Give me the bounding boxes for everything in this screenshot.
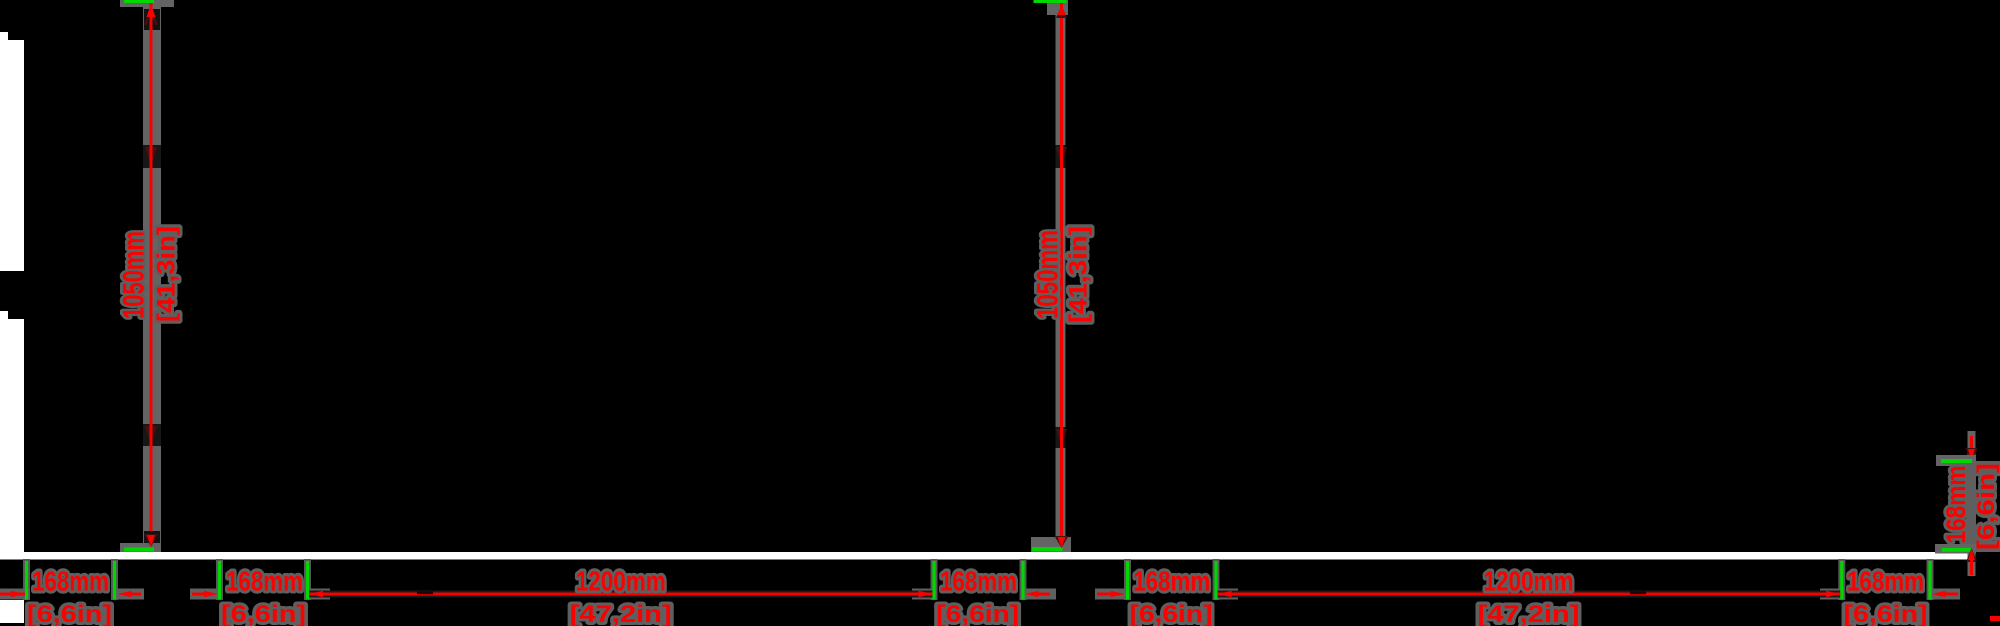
down arrowhead (1968, 449, 1975, 462)
dark arrow upper notch (145, 147, 157, 166)
right arrowhead segment 1 (919, 591, 933, 597)
svg-text:168mm: 168mm (1133, 566, 1210, 597)
dimension line segment from left edge (0, 593, 25, 596)
stray red dash bottom-right (1990, 616, 2000, 621)
top tick halo (120, 0, 174, 7)
dark patch around top arrowhead (144, 9, 160, 30)
halo band bottom (1968, 553, 1976, 576)
arrow halos (0, 589, 30, 600)
svg-text:[6,6in]: [6,6in] (1130, 601, 1213, 626)
svg-text:[6,6in]: [6,6in] (936, 601, 1019, 626)
stub and arrowhead right into tick 7 (1097, 593, 1111, 596)
svg-text:168mm: 168mm (1847, 566, 1924, 597)
bottom tick halo (1031, 537, 1071, 552)
top arrowhead inner dark (147, 9, 155, 25)
svg-text:[6,6in]: [6,6in] (1844, 601, 1928, 626)
svg-text:[6,6in]: [6,6in] (27, 601, 112, 626)
svg-text:168mm: 168mm (32, 566, 109, 597)
svg-text:[47,2in]: [47,2in] (570, 601, 672, 626)
red stub top (1970, 436, 1973, 450)
dark notch lower (1056, 427, 1066, 448)
bottom arrowhead (147, 535, 155, 547)
up arrowhead (1968, 549, 1975, 561)
dark patch around bottom arrowhead (144, 531, 160, 543)
bottom tick halo (1935, 544, 1976, 554)
arrowhead right into tick 1 (11, 591, 25, 597)
dark arrow upper notch (1056, 147, 1067, 166)
dimension line 1200mm segment 1 (309, 593, 933, 596)
svg-text:1050mm: 1050mm (1032, 230, 1065, 319)
white product fragment lower column (0, 319, 24, 552)
dark notch upper (143, 145, 161, 168)
svg-text:1200mm: 1200mm (576, 566, 666, 597)
dark notch lower (143, 424, 161, 446)
svg-text:[6,6in]: [6,6in] (1973, 463, 2000, 550)
svg-text:[41,3in]: [41,3in] (153, 226, 181, 322)
faint line halos under long lines (309, 591, 933, 598)
white product fragment upper column (0, 40, 24, 271)
svg-text:[41,3in]: [41,3in] (1065, 226, 1093, 323)
kink mark segment 2 (1630, 591, 1646, 594)
bottom arrowhead (1058, 537, 1066, 548)
halo band top (1968, 431, 1976, 466)
dimension line 1200mm segment 2 (1218, 593, 1841, 596)
svg-text:168mm: 168mm (1941, 466, 1971, 544)
top tick halo (1936, 455, 1976, 466)
left arrowhead segment 2 (1218, 591, 1232, 597)
bottom arrowhead dark wings (144, 534, 158, 547)
top arrowhead dark wings (1056, 5, 1067, 18)
halo band (143, 0, 161, 552)
red dimension line (1060, 3, 1063, 549)
white product fragment top-left narrow strip (0, 32, 8, 41)
white ground stripe (0, 552, 1968, 560)
svg-text:168mm: 168mm (226, 566, 303, 597)
top extension tick (green) (1941, 459, 1972, 463)
up arrowhead dark wings (1966, 548, 1977, 562)
bottom extension tick (green) (1032, 547, 1063, 551)
top halo blob (1047, 0, 1068, 15)
top extension tick (green) (1034, 0, 1067, 3)
halo filler between rotated labels (1966, 463, 1976, 548)
svg-text:1050mm: 1050mm (118, 231, 151, 319)
arrowhead left of tick 2 with stub (118, 591, 132, 597)
dark notch upper (1056, 145, 1066, 168)
top extension tick (green) (124, 0, 154, 3)
white product fragment bottom-left block (0, 600, 24, 623)
kink mark segment 1 (417, 591, 433, 594)
white product fragment small step (0, 311, 8, 319)
top arrowhead (147, 4, 156, 17)
halo band (1056, 0, 1066, 552)
dark arrow lower notch (1056, 429, 1067, 446)
stub and arrowhead right into tick 3 (192, 593, 205, 596)
bottom extension tick (green) (124, 548, 154, 552)
svg-text:[6,6in]: [6,6in] (221, 601, 306, 626)
bottom tick halo (120, 543, 161, 552)
bottom arrowhead dark wings (1055, 536, 1069, 548)
svg-text:[47,2in]: [47,2in] (1478, 601, 1580, 626)
right arrowhead segment 2 (1826, 591, 1840, 597)
tick halos (23, 559, 30, 600)
left arrowhead segment 1 (309, 591, 323, 597)
svg-text:1200mm: 1200mm (1484, 566, 1574, 597)
red dimension line (150, 3, 153, 548)
red line through top arrow (150, 14, 153, 30)
extension ticks (green) (25, 561, 28, 600)
red stub bottom (1970, 560, 1973, 575)
arrowhead left of tick 6 with stub (1025, 591, 1039, 597)
bottom extension tick (green) (1942, 548, 1972, 552)
down arrowhead dark wings (1966, 448, 1978, 462)
dark arrow lower notch (145, 426, 157, 444)
svg-text:168mm: 168mm (940, 566, 1017, 597)
top arrowhead (1058, 4, 1066, 15)
arrowhead left of right edge tick with stub (1932, 591, 1946, 597)
top arrowhead dark wings (144, 5, 158, 25)
